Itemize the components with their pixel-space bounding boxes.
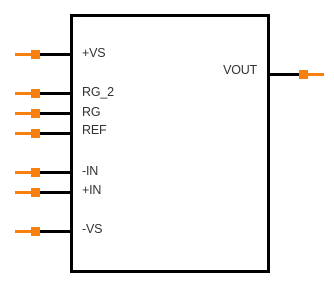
pin +VS stub (15, 53, 31, 56)
pin REF wire (39, 132, 73, 135)
pin RG terminal (31, 109, 40, 118)
pin REF stub (15, 132, 31, 135)
pin label VOUT (223, 63, 257, 77)
pin +IN stub (15, 191, 31, 194)
pin -IN stub (15, 171, 31, 174)
pin -VS wire (39, 230, 73, 233)
pin -VS stub (15, 230, 31, 233)
pin VOUT wire (267, 73, 301, 76)
pin RG stub (15, 112, 31, 115)
pin label -VS (82, 222, 102, 236)
pin label REF (82, 123, 106, 137)
pin -IN terminal (31, 168, 40, 177)
pin +VS wire (39, 53, 73, 56)
pin -IN wire (39, 171, 73, 174)
pin VOUT terminal (299, 70, 308, 79)
pin label RG_2 (82, 85, 114, 99)
pin label RG (82, 105, 100, 119)
pin RG_2 wire (39, 92, 73, 95)
pin +IN wire (39, 191, 73, 194)
pin RG_2 terminal (31, 89, 40, 98)
pin -VS terminal (31, 227, 40, 236)
pin label -IN (82, 164, 98, 178)
IC symbol body U1 (70, 14, 270, 273)
pin RG wire (39, 112, 73, 115)
pin RG_2 stub (15, 92, 31, 95)
pin label +IN (82, 183, 101, 197)
pin +IN terminal (31, 188, 40, 197)
pin REF terminal (31, 129, 40, 138)
pin VOUT stub (308, 73, 324, 76)
pin label +VS (82, 46, 105, 60)
pin +VS terminal (31, 50, 40, 59)
